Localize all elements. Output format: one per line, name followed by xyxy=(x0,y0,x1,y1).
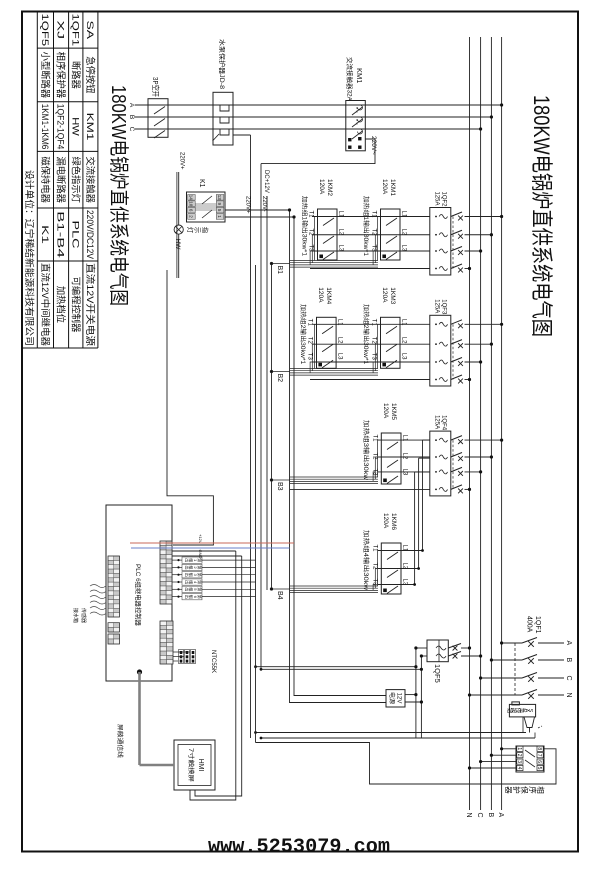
PLC output labels xyxy=(172,557,256,600)
contactor 1KM4 xyxy=(307,317,343,368)
svg-text:KM1: KM1 xyxy=(355,68,364,83)
svg-text:水泵保护器JD-8: 水泵保护器JD-8 xyxy=(218,39,227,89)
svg-text:B4: B4 xyxy=(276,591,283,600)
rail DC+12V xyxy=(266,196,268,590)
svg-text:B3: B3 xyxy=(276,482,283,491)
svg-text:8: 8 xyxy=(536,747,542,750)
svg-text:T3: T3 xyxy=(371,469,377,477)
svg-text:A: A xyxy=(497,813,504,818)
HMI touch screen xyxy=(174,740,215,790)
svg-text:KM1: KM1 xyxy=(84,113,95,141)
svg-text:3: 3 xyxy=(516,760,522,763)
branch pole wires xyxy=(290,217,430,585)
svg-text:K1: K1 xyxy=(198,179,205,188)
svg-text:指示灯: 指示灯 xyxy=(186,227,210,234)
svg-text:1KM5: 1KM5 xyxy=(390,403,397,420)
svg-text:A: A xyxy=(128,103,135,108)
svg-text:120A: 120A xyxy=(318,179,325,195)
svg-text:交流接触器: 交流接触器 xyxy=(84,156,96,203)
svg-text:电源: 电源 xyxy=(388,692,396,704)
svg-text:HW: HW xyxy=(69,117,80,136)
svg-text:B: B xyxy=(128,115,135,119)
wire GND blue xyxy=(131,547,290,549)
svg-text:出: 出 xyxy=(184,587,190,591)
svg-text:T1: T1 xyxy=(307,319,313,327)
node B4 bundle xyxy=(270,586,378,593)
phase sequence protector XJ xyxy=(516,746,544,772)
svg-text:加热组3输出30kw: 加热组3输出30kw xyxy=(362,420,370,481)
svg-text:L1: L1 xyxy=(337,319,343,326)
svg-text:14: 14 xyxy=(189,195,194,201)
svg-text:N: N xyxy=(565,693,572,698)
bus C xyxy=(480,37,482,810)
svg-text:B: B xyxy=(487,813,494,818)
svg-text:漏电断路器: 漏电断路器 xyxy=(55,156,67,203)
svg-text:C: C xyxy=(565,676,572,681)
PLC input terminal strip (bottom) xyxy=(108,556,120,617)
svg-text:传感器: 传感器 xyxy=(80,608,87,623)
svg-text:2: 2 xyxy=(516,754,522,757)
svg-text:400A: 400A xyxy=(526,616,533,633)
svg-text:急停按钮: 急停按钮 xyxy=(84,56,96,94)
XJ stubs to buses xyxy=(502,748,516,750)
svg-text:www.5253079.com: www.5253079.com xyxy=(208,836,390,859)
water pump protector JD-8 xyxy=(213,92,251,145)
svg-text:B2: B2 xyxy=(276,374,283,383)
svg-text:4: 4 xyxy=(516,767,522,770)
indicator lamp HW xyxy=(174,225,183,234)
breaker 1QF3 125A xyxy=(430,315,503,386)
svg-text:L2: L2 xyxy=(401,337,407,344)
supply line B with 1QF1 pole xyxy=(490,655,572,664)
branch4 L-feed trio xyxy=(415,440,430,584)
svg-text:120A: 120A xyxy=(381,287,388,303)
svg-text:1KM1-1KM6: 1KM1-1KM6 xyxy=(39,104,50,150)
NTC connector blocks xyxy=(179,650,196,664)
svg-text:HW: HW xyxy=(174,239,181,251)
svg-text:220V+: 220V+ xyxy=(179,152,185,170)
svg-text:相序保护器: 相序保护器 xyxy=(504,786,546,794)
svg-text:DC+12V: DC+12V xyxy=(263,170,269,193)
svg-text:T2: T2 xyxy=(371,563,377,571)
svg-text:L2: L2 xyxy=(402,453,408,460)
NTC wires xyxy=(173,651,190,653)
svg-text:SA: SA xyxy=(84,21,95,41)
svg-text:180KW电锅炉直供系统电气图: 180KW电锅炉直供系统电气图 xyxy=(529,95,554,337)
svg-text:N: N xyxy=(465,813,472,818)
supply line A with 1QF1 pole xyxy=(500,638,572,647)
PLC controller box xyxy=(106,505,172,681)
PLC output terminal strip (top) xyxy=(160,541,172,604)
svg-text:L1: L1 xyxy=(401,319,407,326)
svg-text:K1: K1 xyxy=(39,225,50,244)
rail mid xyxy=(255,265,257,743)
contactor 1KM3 xyxy=(371,317,407,368)
PLC NTC terminal strip xyxy=(160,621,173,664)
supply line N with 1QF1 pole xyxy=(468,690,572,699)
contactor 1KM1 xyxy=(371,209,407,260)
svg-text:XJ: XJ xyxy=(55,21,66,40)
svg-text:加热组1输出30kw*1: 加热组1输出30kw*1 xyxy=(301,196,309,257)
svg-text:3P空开: 3P空开 xyxy=(151,77,161,97)
svg-text:出: 出 xyxy=(184,566,190,570)
svg-text:L1: L1 xyxy=(402,435,408,442)
svg-text:13: 13 xyxy=(217,195,222,201)
3P breaker box xyxy=(148,99,168,138)
node B2 bundle xyxy=(270,369,378,376)
HMI supply pair xyxy=(195,556,242,796)
svg-text:7寸触摸屏: 7寸触摸屏 xyxy=(187,748,195,782)
svg-text:加热组1输出30kw*1: 加热组1输出30kw*1 xyxy=(362,196,370,257)
svg-text:直流12V开关电源: 直流12V开关电源 xyxy=(84,263,96,347)
T-side jog connectors xyxy=(310,217,379,591)
svg-text:1QF4: 1QF4 xyxy=(441,415,447,431)
breaker 1QF2 125A xyxy=(430,208,503,276)
bus B xyxy=(490,37,492,810)
svg-text:C: C xyxy=(128,127,135,132)
contactor KM1 xyxy=(346,101,366,151)
svg-text:C: C xyxy=(476,813,483,818)
power supply 12V xyxy=(386,690,405,707)
svg-text:T1: T1 xyxy=(308,211,314,219)
svg-text:L2: L2 xyxy=(337,337,343,344)
svg-text:出: 出 xyxy=(184,573,190,577)
svg-text:HMI: HMI xyxy=(197,759,204,772)
wire 220V drop to web xyxy=(256,666,416,668)
wire lamp circuit to PLC xyxy=(167,270,213,545)
svg-text:125A: 125A xyxy=(434,299,440,313)
svg-text:+12V: +12V xyxy=(198,534,203,544)
svg-text:屏蔽通信线: 屏蔽通信线 xyxy=(116,724,124,758)
svg-text:PLC 6组继电器控制器: PLC 6组继电器控制器 xyxy=(134,564,143,626)
contactor 1KM2 xyxy=(308,209,344,260)
svg-text:180KW电锅炉直供系统电气图: 180KW电锅炉直供系统电气图 xyxy=(107,85,130,306)
bus A xyxy=(501,37,503,810)
svg-text:断路器: 断路器 xyxy=(69,61,81,89)
pump feeder wires A B C xyxy=(135,104,502,106)
wire SA to control rails xyxy=(256,732,527,734)
svg-text:1: 1 xyxy=(516,747,522,750)
svg-text:1KM6: 1KM6 xyxy=(390,513,397,530)
svg-text:1KM3: 1KM3 xyxy=(389,287,396,304)
control rails 220V from 1QF5 xyxy=(415,648,417,738)
svg-text:小型断路器: 小型断路器 xyxy=(39,52,51,99)
node B3 bundle xyxy=(270,477,378,484)
svg-text:加热组2输出30kw*1: 加热组2输出30kw*1 xyxy=(362,304,370,365)
K1 coil stubs to DC rails xyxy=(225,209,290,211)
svg-text:B: B xyxy=(565,658,572,663)
1QF1 linkage dashed line xyxy=(514,643,516,695)
pushbutton SA (emergency stop) xyxy=(506,702,542,733)
svg-text:120A: 120A xyxy=(381,179,388,195)
svg-text:交流接触器32A: 交流接触器32A xyxy=(346,57,355,102)
svg-text:1KM1: 1KM1 xyxy=(389,179,396,196)
svg-text:NTC55K: NTC55K xyxy=(210,650,216,673)
svg-text:1KM2: 1KM2 xyxy=(326,179,333,196)
svg-text:B1-B4: B1-B4 xyxy=(55,211,66,258)
bus N xyxy=(469,37,471,810)
svg-text:T2: T2 xyxy=(371,337,377,345)
svg-text:出: 出 xyxy=(184,595,190,599)
svg-text:T2: T2 xyxy=(371,453,377,461)
contactor 1KM5 xyxy=(371,433,407,484)
svg-text:220V/DC12V: 220V/DC12V xyxy=(84,210,95,260)
svg-text:设计单位：辽宁稀结新能源科技有限公司: 设计单位：辽宁稀结新能源科技有限公司 xyxy=(23,170,35,346)
svg-text:1QF1: 1QF1 xyxy=(69,14,80,47)
sensor pigtails below PLC xyxy=(90,585,106,616)
svg-text:12V: 12V xyxy=(396,693,402,704)
svg-text:加热组4输出30kw: 加热组4输出30kw xyxy=(362,530,370,591)
svg-text:5: 5 xyxy=(536,767,542,770)
svg-text:125A: 125A xyxy=(434,415,440,429)
svg-text:1QF1: 1QF1 xyxy=(534,616,541,634)
svg-text:125A: 125A xyxy=(434,192,440,206)
breaker 1QF4 125A xyxy=(430,431,503,496)
svg-text:A: A xyxy=(565,641,572,646)
svg-text:220V-: 220V- xyxy=(261,196,267,212)
svg-text:T1: T1 xyxy=(371,319,377,327)
svg-text:1QF5: 1QF5 xyxy=(39,14,50,47)
svg-text:10: 10 xyxy=(189,201,194,207)
svg-text:出: 出 xyxy=(184,580,190,584)
svg-text:T1: T1 xyxy=(371,211,377,219)
svg-text:1QF2-1QF4: 1QF2-1QF4 xyxy=(55,104,66,150)
contactor 1KM6 xyxy=(371,543,407,594)
PSU 12V DC output pair xyxy=(294,217,386,696)
svg-text:6: 6 xyxy=(536,760,542,763)
XJ output loop wire xyxy=(256,743,557,785)
legend table xyxy=(22,12,98,349)
svg-text:T1: T1 xyxy=(371,545,377,553)
svg-text:1QF3: 1QF3 xyxy=(441,299,447,315)
svg-text:加热档位: 加热档位 xyxy=(55,286,67,324)
breaker 1QF5 xyxy=(416,640,482,662)
PLC aux terminals xyxy=(108,623,120,632)
svg-text:220V+: 220V+ xyxy=(245,196,251,214)
svg-text:1KM4: 1KM4 xyxy=(325,287,332,304)
svg-text:T2: T2 xyxy=(307,337,313,345)
svg-text:T3: T3 xyxy=(307,353,313,361)
relay K1 xyxy=(187,192,226,222)
svg-text:绿色指示灯: 绿色指示灯 xyxy=(69,156,81,203)
svg-text:加热组2输出30kw*1: 加热组2输出30kw*1 xyxy=(299,304,307,365)
lamp wires xyxy=(178,172,180,225)
svg-text:出: 出 xyxy=(184,558,190,562)
svg-text:L3: L3 xyxy=(337,353,343,360)
svg-text:GND: GND xyxy=(198,550,203,559)
svg-text:B1: B1 xyxy=(276,266,283,275)
svg-text:T3: T3 xyxy=(371,579,377,587)
wire +12V red xyxy=(130,542,294,544)
legend table cell texts xyxy=(23,14,96,347)
svg-text:PLC: PLC xyxy=(69,221,80,249)
rail 220V+ xyxy=(250,135,252,738)
svg-text:120A: 120A xyxy=(382,513,389,529)
supply line C with 1QF1 pole xyxy=(479,673,572,682)
svg-text:接水箱: 接水箱 xyxy=(72,608,79,623)
svg-text:T1: T1 xyxy=(371,435,377,443)
svg-text:120A: 120A xyxy=(317,287,324,303)
svg-text:L3: L3 xyxy=(401,353,407,360)
svg-text:磁保持电器: 磁保持电器 xyxy=(39,156,51,203)
svg-text:1QF2: 1QF2 xyxy=(441,192,447,208)
shielded comm cable PLC-HMI xyxy=(137,669,142,674)
svg-text:直流12V中间继电器: 直流12V中间继电器 xyxy=(39,263,51,346)
stubs rails to PSU xyxy=(405,694,416,696)
svg-text:120A: 120A xyxy=(382,403,389,419)
svg-text:1QF5: 1QF5 xyxy=(433,664,442,683)
rail 220V- xyxy=(260,164,262,670)
svg-text:相序保护器: 相序保护器 xyxy=(55,52,67,99)
svg-text:可编程控制器: 可编程控制器 xyxy=(69,277,81,333)
rail B collector xyxy=(271,265,273,590)
node B1 bundle xyxy=(270,261,378,268)
svg-text:7: 7 xyxy=(536,754,542,757)
